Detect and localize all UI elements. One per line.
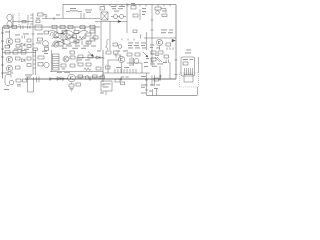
capacitor C10 — [33, 48, 38, 51]
wire hooks x81 — [81, 13, 84, 19]
snubber row R8 — [68, 25, 73, 28]
capacitor C15 — [22, 36, 25, 39]
wire vertical pair x152 — [152, 75, 155, 86]
degauss coil L2 — [5, 75, 14, 86]
diode D7 — [155, 57, 162, 62]
wire out Q13 — [75, 76, 103, 78]
resistor R14 — [62, 31, 67, 34]
wire vertical rail A — [32, 13, 35, 50]
wire mid-top rail — [42, 18, 100, 20]
resistor R47 — [23, 79, 27, 82]
transformer T1 — [7, 14, 13, 27]
resistor R46 — [16, 79, 21, 82]
label net5 — [4, 88, 9, 91]
filter box FL1 — [35, 25, 42, 30]
wire vertical x170 — [169, 62, 171, 79]
junction tick x152 y30 — [151, 29, 154, 31]
label block6 — [116, 66, 129, 69]
label row y48 left — [17, 48, 29, 51]
wire vertical x27 — [27, 77, 29, 92]
transistor Q10 — [63, 56, 69, 62]
label above T3 — [42, 51, 65, 70]
ground GND1 — [70, 83, 74, 92]
wire tick x75 — [75, 27, 85, 31]
node ticks — [30, 15, 33, 24]
wire left chain — [3, 52, 37, 54]
resistor R22 — [166, 43, 171, 46]
transistor Q1 — [6, 30, 13, 48]
capacitor pair C19 — [28, 26, 31, 30]
module box U1 — [181, 57, 195, 76]
label U1 — [183, 58, 193, 61]
label block1 — [44, 46, 96, 49]
wire vertical drop — [62, 5, 64, 19]
diode D6 — [134, 59, 139, 64]
label L1 — [70, 7, 76, 10]
resistor R35 — [86, 63, 91, 66]
wire lower horizontal H — [50, 71, 103, 73]
resistor R34 — [78, 63, 83, 66]
pin stub P1 — [153, 89, 157, 96]
wire wavy run 3 — [55, 42, 79, 45]
transistor Q9 — [44, 62, 49, 67]
capacitor C16 — [17, 85, 21, 87]
capacitor C4 — [162, 14, 167, 17]
wire diode row — [50, 78, 68, 80]
resistor R42 — [158, 51, 163, 54]
resistor R11 — [16, 39, 21, 42]
wire bottom bus — [25, 78, 176, 81]
resistor R15 — [74, 31, 79, 34]
wire vertical rail F — [151, 5, 154, 67]
resistor R43 — [151, 58, 156, 61]
label cluster right — [155, 55, 167, 63]
arrow on feed wire — [118, 20, 121, 22]
capacitor C2 — [100, 7, 105, 11]
resistor R60 — [96, 67, 101, 70]
label net7 — [150, 84, 160, 87]
wire vertical x160 — [159, 66, 161, 79]
arrow A1 — [172, 39, 175, 42]
label U1 top — [185, 50, 191, 54]
bridge rectifier D1 — [111, 15, 126, 19]
label block3 — [161, 30, 173, 34]
snubber row R10 — [90, 25, 95, 28]
wire link top right — [151, 9, 167, 21]
transistor Q11 — [118, 56, 124, 62]
wire T1 out — [12, 21, 33, 23]
resistor R1 — [155, 7, 161, 10]
resistor R18 — [86, 41, 91, 44]
capacitor C3 — [133, 14, 138, 17]
chain resistor R24 — [13, 51, 18, 55]
resistor R50 — [115, 79, 120, 82]
wire feed y57 — [77, 58, 103, 64]
label Q1 — [5, 32, 43, 50]
transistor Q13 — [68, 74, 76, 82]
resistor R40 — [135, 53, 140, 56]
resistor R13 — [38, 38, 43, 41]
wire drop x57 — [56, 29, 58, 32]
resistor R28 — [27, 57, 31, 67]
resistor R30 — [38, 63, 43, 67]
fuse F1 — [38, 13, 48, 16]
label block2 — [128, 43, 146, 49]
rail stubs — [104, 5, 170, 7]
resistor R27 — [16, 66, 21, 69]
wire right edge rail — [198, 57, 200, 73]
label left of box U2 — [98, 78, 104, 93]
capacitor C1 — [22, 20, 26, 23]
wire vertical rail B — [33, 50, 36, 75]
wire drop x101 — [100, 22, 102, 51]
wire drop x95 — [94, 27, 96, 36]
junction stubs y38 — [122, 35, 141, 41]
capacitor C11 — [37, 77, 40, 83]
capacitor C6 — [130, 58, 134, 66]
brace — [106, 39, 109, 50]
wire vertical x63b — [62, 31, 64, 48]
wire Q11 base — [102, 58, 122, 73]
label net4 — [25, 75, 32, 78]
resistor R58 — [16, 45, 20, 48]
label col1 — [141, 76, 146, 93]
wire vertical x132 — [131, 57, 133, 66]
capacitor C22 — [45, 48, 49, 51]
capacitor pair C18 — [21, 26, 24, 30]
transformer T4 — [185, 68, 193, 75]
resistor R49 — [93, 75, 98, 78]
snubber row R2 — [4, 25, 9, 28]
wire bottom right rail — [147, 95, 198, 97]
snubber row R3 — [12, 25, 17, 28]
resistor R32 — [70, 56, 75, 59]
resistor R41 — [151, 51, 156, 54]
wire control rail y38 — [144, 37, 176, 39]
wire wavy run 1 — [48, 31, 88, 34]
junction ticks x176 — [175, 60, 178, 75]
resistor R44 — [183, 62, 188, 65]
snubber row R6 — [52, 25, 57, 28]
resistor R52 — [90, 30, 95, 33]
label F1 — [36, 15, 60, 19]
snubber row R7 — [60, 25, 65, 28]
dotted shield region — [180, 73, 199, 87]
wire upper rail segment — [95, 21, 127, 23]
inductor L1 — [66, 10, 82, 11]
resistor R20 zigzag — [79, 36, 86, 39]
capacitor C5 — [167, 48, 173, 51]
resistor R21 — [113, 43, 118, 46]
transistor Q4 — [53, 41, 64, 47]
label row y50 center — [97, 50, 128, 53]
diode D3 — [21, 43, 25, 47]
resistor R39 — [127, 53, 132, 56]
resistor R56 — [88, 55, 93, 58]
wire vertical x33b — [28, 77, 34, 92]
diode D8 — [57, 77, 61, 81]
label right of Q11 — [144, 62, 148, 67]
resistor R33 — [70, 64, 75, 67]
capacitor C20 — [44, 31, 49, 34]
resistor R29 — [38, 56, 44, 59]
wire vertical rail D — [109, 22, 111, 51]
marks x147-150 y60 — [146, 57, 149, 60]
chain resistor R23 — [5, 51, 10, 55]
junction tick x160 — [159, 75, 162, 79]
pin symbols center — [115, 55, 122, 58]
label R1 — [162, 10, 166, 13]
capacitor C17 — [36, 20, 40, 23]
resistor R16 — [74, 40, 79, 43]
diode D4 — [118, 45, 122, 49]
label below Q6 — [156, 47, 160, 50]
capacitor C23 — [121, 82, 125, 85]
wire vertical rail E — [126, 3, 128, 33]
label block8 — [77, 59, 90, 62]
capacitor C21 — [133, 30, 137, 33]
wire drop x66 — [65, 29, 67, 33]
wire vertical x51 — [51, 50, 53, 72]
wire vertical x140 — [139, 9, 141, 20]
wire vertical x145 — [145, 73, 148, 96]
wire riser x197 — [197, 87, 199, 96]
transistor Q2 — [43, 41, 49, 47]
resistor R62 — [106, 66, 111, 69]
resistor R48 — [78, 75, 83, 78]
diode D9 — [85, 76, 89, 80]
transistor Q3 — [50, 32, 59, 38]
diode D2 — [156, 11, 160, 15]
wire left rail — [1, 27, 4, 79]
transistor Q5 — [60, 34, 71, 40]
wire stub under U2 — [105, 91, 107, 95]
label block4 — [4, 72, 13, 75]
arrow A3 — [143, 52, 148, 57]
component legs grid — [58, 34, 88, 46]
label net1 — [85, 10, 92, 13]
wire lower horizontal I — [103, 72, 150, 74]
wire drop x22 — [21, 47, 23, 53]
junction ticks x103 — [102, 75, 105, 85]
resistor R12 — [27, 39, 31, 48]
wire vertical x28 — [27, 15, 29, 25]
label block7 — [150, 64, 163, 67]
wire vertical rail C — [102, 50, 104, 82]
resistor R53 — [90, 38, 95, 41]
capacitor bank C7 — [115, 69, 136, 73]
resistor R54 — [72, 35, 77, 38]
transistor Q7 — [6, 56, 12, 62]
resistor R17 — [86, 33, 91, 36]
resistor R26 — [16, 57, 21, 60]
wire corner — [127, 63, 142, 73]
wire vertical rail G — [175, 5, 177, 80]
junction tick x54 — [53, 17, 55, 20]
junction marks on bus — [121, 76, 129, 79]
resistor R36 zigzag — [84, 68, 91, 71]
resistor R38 — [114, 51, 119, 54]
label C3 — [131, 2, 135, 5]
regulator box U2 — [101, 81, 112, 91]
capacitor C14 — [166, 60, 169, 64]
connector box J1 — [184, 75, 193, 83]
label C2 — [111, 6, 125, 12]
wire stub x46 — [45, 16, 48, 19]
wire vertical x146 upper — [146, 32, 148, 50]
transformer T3 — [53, 54, 60, 70]
capacitor C8 — [69, 84, 74, 87]
resistor R55 — [78, 55, 83, 58]
diode D10 — [96, 56, 100, 59]
chain resistor R25 — [21, 51, 26, 55]
label net8 — [149, 88, 158, 91]
resistor R61 — [5, 45, 10, 48]
label U2 — [103, 84, 111, 88]
label net3 — [150, 45, 154, 48]
transistor Q8 — [6, 65, 12, 71]
label net2 — [142, 8, 146, 15]
capacitor C13 — [131, 6, 136, 10]
wire wavy run 2 — [52, 37, 84, 40]
resistor R59 — [70, 51, 75, 54]
transistor Q6 — [156, 39, 162, 50]
resistor R31 — [61, 64, 66, 67]
capacitor C12 — [76, 83, 81, 86]
wire main bus — [3, 26, 101, 28]
label block5 — [57, 71, 70, 74]
resistor R19 — [93, 36, 98, 39]
transformer T2 — [101, 12, 108, 20]
snubber row R9 — [80, 25, 85, 28]
arrow A2 — [88, 52, 94, 57]
wire top rail — [63, 4, 176, 6]
node line dashed — [18, 13, 20, 27]
diode D5 — [22, 59, 26, 62]
resistor R51 — [154, 78, 159, 81]
capacitor C9 — [100, 76, 105, 79]
resistor R37 — [106, 51, 111, 54]
resistor R57 — [164, 55, 169, 58]
